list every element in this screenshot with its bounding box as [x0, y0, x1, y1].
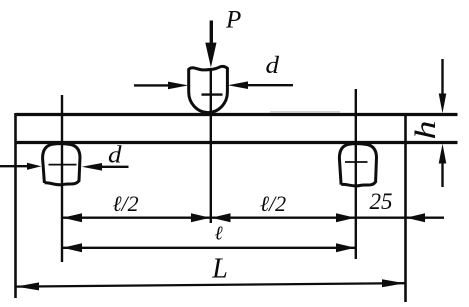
left support d dimension left arrowhead — [27, 163, 41, 170]
right support roller outline — [339, 144, 376, 186]
svg-text:ℓ/2: ℓ/2 — [260, 191, 286, 216]
l span left arrowhead — [63, 243, 82, 252]
l/2 right span left arrowhead — [211, 213, 230, 222]
l/2 left span right arrowhead — [191, 213, 210, 222]
h dimension upper arrowhead — [439, 94, 447, 114]
svg-text:ℓ/2: ℓ/2 — [112, 191, 138, 216]
beam specimen top edge (extended right for h dimension) — [16, 113, 458, 116]
l/2 right span right arrowhead — [336, 213, 355, 222]
nose d dimension right arrowhead — [228, 81, 248, 89]
25 overhang arrowhead at beam end — [406, 213, 425, 222]
faint scan ghost above beam — [270, 111, 340, 113]
left support d dimension line right segment — [101, 166, 129, 168]
L right arrowhead — [382, 279, 405, 287]
loading nose center dash — [202, 93, 223, 95]
right support center dash — [345, 161, 368, 163]
l/2 left span left arrowhead — [63, 213, 82, 222]
right support centerline — [355, 89, 357, 259]
beam specimen bottom edge (extended right for h dimension) — [16, 141, 458, 144]
nose d dimension left arrowhead — [168, 82, 188, 90]
h dimension upper arrow shaft — [441, 59, 443, 95]
l span right arrowhead — [336, 243, 355, 252]
nose d dimension line left segment — [134, 84, 172, 86]
h dimension lower arrow shaft — [441, 162, 443, 187]
svg-text:d: d — [108, 143, 123, 169]
l/2 dimension line left span — [62, 216, 211, 218]
middle loading-nose centerline — [210, 68, 212, 223]
h dimension lower arrowhead — [439, 144, 447, 164]
svg-text:25: 25 — [370, 189, 393, 214]
loading nose U1 outline — [189, 66, 228, 112]
left support centerline — [61, 95, 63, 262]
left support d dimension right arrowhead — [82, 163, 102, 171]
left support d dimension line left segment — [0, 165, 28, 167]
l/2 dimension line right span — [211, 216, 356, 218]
svg-text:d: d — [266, 53, 281, 79]
beam right end edge / extension line for L and 25 — [404, 113, 407, 302]
left support roller outline — [43, 144, 80, 185]
svg-text:L: L — [211, 254, 228, 285]
nose d dimension line right segment — [248, 84, 293, 86]
L total length dimension line — [16, 283, 406, 286]
beam left end edge / extension line for L — [14, 113, 17, 298]
left support center dash — [49, 164, 77, 166]
load arrow P head — [205, 43, 216, 68]
load arrow P shaft — [210, 21, 213, 49]
25 overhang dimension line with outside tail — [356, 216, 444, 218]
L left arrowhead — [16, 282, 39, 290]
svg-text:ℓ: ℓ — [214, 224, 223, 245]
svg-text:P: P — [225, 7, 241, 34]
l span dimension line — [62, 247, 356, 249]
svg-text:h: h — [409, 121, 442, 140]
